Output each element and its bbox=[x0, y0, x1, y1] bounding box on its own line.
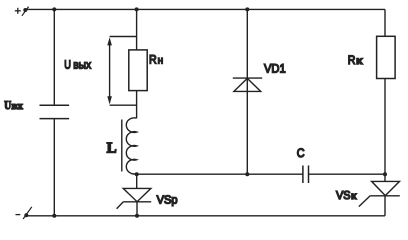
label - bbox=[16, 214, 21, 216]
capacitor Uvx bottom plate bbox=[40, 118, 70, 120]
wire left branch lower bbox=[53, 119, 55, 216]
svg-text:VS: VS bbox=[336, 189, 351, 202]
terminal minus (input -) bbox=[23, 207, 32, 219]
measuring arrow Uvyx double-headed bbox=[107, 37, 112, 104]
thyristor VSk bbox=[359, 181, 400, 206]
capacitor C left plate bbox=[302, 166, 304, 184]
wire right branch top bbox=[384, 9, 386, 36]
wire left branch upper bbox=[53, 9, 55, 105]
svg-text:L: L bbox=[107, 141, 117, 157]
wire top rail bbox=[27, 8, 386, 10]
label + bbox=[15, 8, 21, 14]
svg-text:вых: вых bbox=[73, 57, 91, 71]
svg-text:U: U bbox=[64, 57, 71, 71]
svg-text:R: R bbox=[348, 53, 356, 67]
svg-text:R: R bbox=[149, 52, 157, 66]
wire bottom rail bbox=[27, 215, 385, 217]
terminal plus (input +) bbox=[22, 7, 29, 16]
svg-text:C: C bbox=[297, 146, 305, 160]
svg-text:н: н bbox=[158, 55, 164, 66]
node bottom-left junction bbox=[52, 214, 56, 218]
wire commutation line left bbox=[137, 173, 303, 175]
wire right branch middle bbox=[384, 79, 386, 182]
capacitor C right plate bbox=[308, 166, 310, 184]
thyristor VSp bbox=[117, 188, 152, 208]
inductor L coil bbox=[126, 118, 136, 174]
wire inductor to VSp bbox=[136, 174, 138, 189]
svg-text:к: к bbox=[356, 56, 363, 67]
svg-text:VSp: VSp bbox=[157, 194, 178, 207]
resistor Rn bbox=[129, 50, 147, 91]
inductor L core line bbox=[121, 120, 123, 172]
diode VD1 bbox=[233, 78, 262, 91]
resistor Rk bbox=[377, 36, 396, 78]
node VSp bottom junction bbox=[135, 214, 139, 218]
wire Rn to inductor bbox=[136, 91, 138, 119]
svg-text:VD1: VD1 bbox=[264, 62, 286, 76]
node VSp top junction bbox=[135, 172, 139, 176]
wire VD1 branch bbox=[246, 9, 248, 174]
node VSk top junction bbox=[383, 172, 387, 176]
wire commutation line right bbox=[309, 173, 386, 175]
svg-text:вх: вх bbox=[12, 101, 24, 112]
svg-text:к: к bbox=[351, 191, 357, 202]
wire Rn branch top bbox=[136, 9, 138, 50]
measuring arrow Uvyx top connector bbox=[110, 36, 137, 38]
capacitor Uvx top plate bbox=[40, 104, 70, 106]
wire VSk to bottom rail bbox=[384, 196, 386, 216]
measuring arrow Uvyx bottom connector bbox=[110, 104, 137, 106]
svg-text:U: U bbox=[4, 98, 11, 112]
node VD1 top junction bbox=[245, 7, 249, 11]
wire VSp to bottom rail bbox=[136, 202, 138, 216]
node top-left junction bbox=[52, 7, 56, 11]
node Rn branch top junction bbox=[135, 7, 139, 11]
node VD1 bottom junction bbox=[245, 172, 249, 176]
